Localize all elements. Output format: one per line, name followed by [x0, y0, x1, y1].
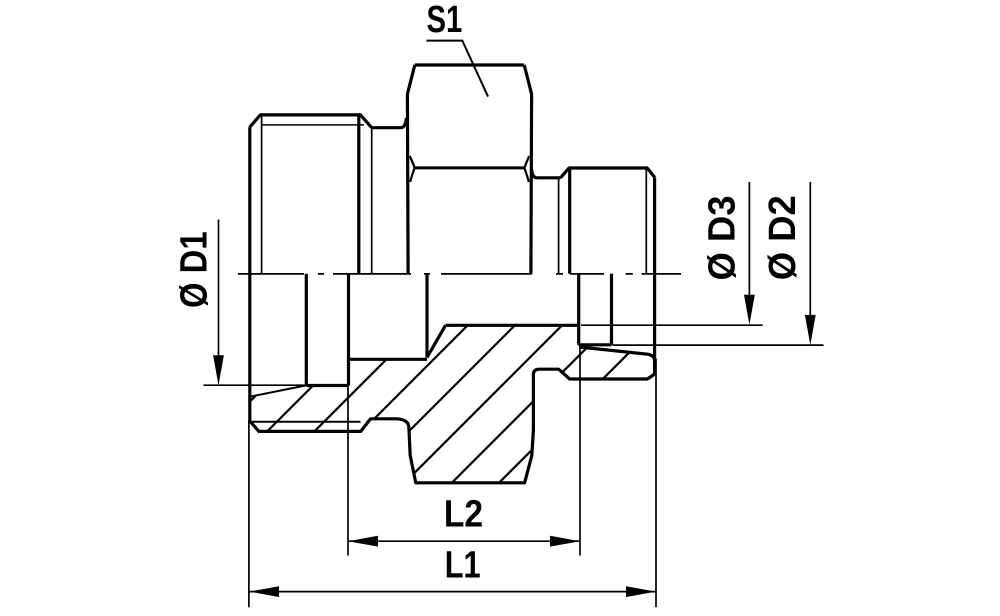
- label D1: [174, 231, 216, 308]
- right collar top edge with stud chamfer: [532, 168, 569, 178]
- left port end face: [248, 127, 251, 421]
- sectioned outer profile (lower half): [250, 369, 655, 483]
- 24-degree cone seat of right port: [579, 347, 655, 361]
- bore step face mid: [347, 274, 350, 386]
- D1 extension line: [204, 384, 307, 386]
- right stud end face: [653, 178, 656, 375]
- left bore wall: [306, 384, 348, 387]
- label S1: [427, 0, 463, 41]
- left port thread root line (section): [252, 421, 361, 423]
- D2 dimension arrow line: [809, 182, 811, 340]
- D2 extension line: [613, 344, 824, 346]
- L1 right extension line: [655, 359, 657, 608]
- label L1: [445, 544, 481, 586]
- hex right corner chamfer: [524, 65, 532, 94]
- svg-text:Ø D2: Ø D2: [762, 195, 804, 280]
- hex right ridge pinch: [524, 156, 529, 182]
- right counterbore wall: [581, 343, 612, 346]
- L2 dimension line: [348, 540, 580, 542]
- svg-text:S1: S1: [427, 0, 463, 41]
- svg-text:L2: L2: [444, 493, 483, 535]
- hex left corner chamfer: [407, 65, 415, 94]
- left port chamfer tangent line: [261, 115, 263, 274]
- right stud shoulder edge: [568, 168, 571, 274]
- hex left ridge pinch: [410, 156, 415, 182]
- bore step face at thread end: [305, 274, 308, 386]
- D3 dimension arrow line: [748, 182, 750, 320]
- S1 leader line: [427, 41, 489, 97]
- D3 extension line: [581, 324, 763, 326]
- left threaded port D1: top outline with end chamfers: [250, 115, 372, 128]
- L1 right arrowhead: [626, 586, 656, 597]
- svg-text:Ø D1: Ø D1: [174, 231, 216, 308]
- section hatching (half-section, lower half): [101, 200, 970, 550]
- label L2: [444, 493, 483, 535]
- L1 dimension line: [249, 591, 656, 593]
- D1 dimension arrow line: [218, 220, 220, 381]
- left port thread chamfer cone (section): [251, 386, 306, 397]
- right stud chamfer tangent line: [645, 169, 647, 274]
- L1 left extension line: [248, 420, 250, 607]
- left collar top edge: [371, 118, 406, 128]
- L2 left extension line: [347, 386, 349, 556]
- hex S1: top flat edge: [415, 63, 524, 66]
- svg-text:Ø D3: Ø D3: [701, 196, 743, 281]
- svg-text:L1: L1: [445, 544, 481, 586]
- hex right side: [529, 94, 533, 274]
- right stud D2: top outline with end chamfer: [568, 168, 655, 178]
- through bore D3 wall: [446, 324, 579, 327]
- L1 left arrowhead: [249, 586, 279, 597]
- label D2: [762, 195, 804, 280]
- D1 arrowhead: [213, 355, 224, 385]
- cone seat face: [425, 274, 428, 358]
- centerline (dash-dot axis): [238, 273, 681, 275]
- L2 right arrowhead: [550, 536, 580, 547]
- left collar tangent line: [371, 128, 373, 274]
- hex left side: [406, 94, 410, 274]
- hex corner ridge line: [415, 166, 525, 169]
- L2 left arrowhead: [348, 536, 378, 547]
- D3 arrowhead: [744, 295, 755, 325]
- left port shoulder edge: [357, 115, 360, 274]
- right bore step face: [579, 274, 581, 345]
- left port thread root line: [262, 124, 364, 126]
- drill cone: [427, 325, 446, 357]
- middle bore wall: [349, 358, 428, 361]
- right counterbore face: [610, 274, 613, 345]
- right collar tangent line: [558, 178, 560, 274]
- label D3: [701, 196, 743, 281]
- D2 arrowhead: [805, 315, 816, 345]
- L2 right extension line: [579, 346, 581, 556]
